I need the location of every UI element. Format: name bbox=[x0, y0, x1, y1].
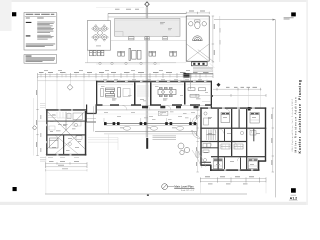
right wing extension lines to grade bbox=[200, 183, 266, 193]
small mark below plan title bbox=[147, 194, 149, 196]
right wing east wall bbox=[265, 107, 266, 161]
wing room microtext bbox=[50, 115, 81, 151]
cabana small table bbox=[195, 20, 200, 22]
left wing inner wall vertical bbox=[63, 135, 64, 154]
wall living/hall bbox=[134, 82, 136, 104]
laundry fixtures bbox=[203, 144, 211, 162]
right wing interior wall h2 bbox=[200, 141, 246, 142]
right wing interior wall h1 bbox=[200, 128, 266, 129]
bed 3 bbox=[250, 113, 259, 124]
dim band extra microtext bbox=[44, 69, 190, 72]
path diagonals SE of cabana bbox=[206, 63, 215, 71]
right wing partition h4 bbox=[200, 147, 217, 148]
border corner arrow bbox=[273, 19, 276, 21]
more door swings right wing bbox=[208, 109, 241, 161]
right wing partition v8 bbox=[240, 157, 241, 169]
right wing stairs bbox=[207, 130, 216, 141]
left wing east wall bbox=[85, 111, 87, 156]
cabana chair right bbox=[202, 22, 206, 26]
scan edge bottom bbox=[0, 202, 308, 205]
notes box 1 column headers bbox=[26, 17, 44, 20]
right wing partition v4 bbox=[224, 129, 225, 142]
door swing arcs south bbox=[122, 105, 201, 110]
court west edge bbox=[190, 73, 192, 89]
patio to terrace edge link bbox=[86, 50, 88, 63]
right wing east dim line bbox=[272, 108, 274, 172]
left wing closet partitions bbox=[57, 112, 70, 118]
court marks bbox=[152, 113, 187, 120]
middle planter structure bbox=[129, 48, 141, 60]
terrace columns bbox=[104, 122, 196, 125]
right wing top wall bbox=[200, 107, 266, 109]
cabana chair left bbox=[189, 22, 193, 26]
living room sofa group bbox=[101, 88, 131, 97]
dining table bbox=[158, 87, 176, 96]
notes box 2 text bbox=[26, 58, 56, 62]
central block top wall bbox=[96, 81, 212, 83]
right wing east jog bbox=[258, 160, 266, 162]
terrace edge below lounges bbox=[85, 62, 176, 64]
section marker diamond bbox=[144, 1, 149, 7]
second left vertical dim bbox=[33, 98, 35, 156]
patio tiny text bbox=[96, 45, 101, 48]
left wing top wall bbox=[46, 109, 86, 111]
north dimension band line 1 bbox=[38, 73, 214, 75]
svg-text:Scale: 1/8" = 1'-0": Scale: 1/8" = 1'-0" bbox=[181, 190, 195, 192]
south wall bay bumps bbox=[142, 106, 199, 108]
left wing lower X bbox=[55, 135, 78, 154]
shrubs on terrace edge bbox=[99, 62, 156, 64]
corner square bottom-right bbox=[291, 188, 296, 193]
leader line bbox=[168, 186, 174, 188]
left wing partition wall bbox=[47, 134, 85, 135]
bed 1 bbox=[213, 159, 222, 169]
terrace column microticks bbox=[104, 118, 190, 122]
wall hall/dining bbox=[150, 82, 152, 104]
scan edge right bbox=[306, 0, 308, 205]
svg-text:Koetter Architecture Plannin: Koetter Architecture Planning bbox=[298, 79, 302, 153]
notes box 1 row1 label bbox=[26, 22, 32, 23]
terrace planters bbox=[123, 126, 183, 130]
dimension band ticks bbox=[38, 73, 214, 78]
extension to grade mid bbox=[107, 135, 109, 194]
entry door arcs west of right wing bbox=[192, 116, 201, 139]
lounge chair pair 2 bbox=[118, 51, 125, 56]
notes box 1 row2 label bbox=[26, 35, 31, 36]
great room scattered marks bbox=[101, 86, 208, 101]
extension of y121 wall to dim bbox=[38, 120, 47, 122]
grid bubble diamond B bbox=[32, 126, 36, 130]
bed 4 bbox=[221, 113, 230, 123]
hall stair lines bbox=[137, 86, 149, 96]
notes box 1 title row bbox=[26, 13, 55, 16]
south patio band lines bbox=[97, 110, 200, 112]
cabana oval table bbox=[195, 22, 200, 29]
cabana inner top wall bbox=[186, 18, 209, 20]
terrace edge upper bbox=[104, 122, 197, 124]
dimension band microtext bbox=[39, 71, 209, 74]
pool step notch bbox=[115, 32, 123, 37]
cabinet line living bbox=[98, 84, 133, 86]
cabana outer box bbox=[186, 16, 209, 61]
cabinet line dining bbox=[153, 84, 184, 86]
terrace edge lower thin bbox=[104, 125, 197, 127]
extra band ticks bbox=[41, 74, 206, 78]
bed 2 bbox=[248, 159, 257, 169]
sheet border vertical line bbox=[274, 20, 276, 198]
left wing roof X bbox=[48, 112, 85, 149]
right wing partition h5 bbox=[200, 162, 211, 163]
sheet number A1.2 bbox=[289, 195, 298, 201]
window sill marks south of left wing bbox=[48, 156, 79, 158]
entry walk curves bbox=[192, 148, 206, 168]
detail bubble bbox=[162, 184, 168, 190]
chimney block bbox=[248, 107, 251, 111]
pool deck south wall bbox=[186, 72, 213, 74]
top wall window gaps bbox=[104, 81, 206, 82]
right wing door arcs bbox=[219, 129, 252, 146]
stairs arrow bbox=[207, 134, 216, 136]
entry steps ticks bbox=[195, 152, 200, 156]
terrace west edge bbox=[93, 106, 95, 131]
right wing interior wall v2 bbox=[231, 109, 232, 156]
patio square bbox=[87, 21, 110, 51]
left wing interior extra marks bbox=[48, 116, 81, 131]
pool bench recess line bbox=[121, 35, 176, 37]
right wing partition v5 bbox=[239, 109, 240, 127]
corner square bottom-left bbox=[13, 187, 17, 191]
deck line south of pool bbox=[111, 40, 187, 42]
pool deck right text bbox=[168, 28, 172, 30]
terrace lower edge bbox=[95, 131, 197, 133]
kitchen fixtures bbox=[188, 88, 206, 97]
left vertical dimension line bbox=[37, 77, 39, 156]
grade line bbox=[45, 193, 247, 195]
closet hatch right wing bbox=[220, 145, 243, 150]
extension ticks down from band bbox=[45, 78, 200, 109]
hallway south lines bbox=[87, 117, 96, 119]
cabana dim extension down bbox=[212, 62, 214, 73]
notes box 2 bbox=[24, 55, 57, 64]
right wing top dim band bbox=[213, 88, 262, 90]
notes box 1 bottom note bbox=[26, 44, 55, 47]
pool top microtext bbox=[115, 8, 139, 11]
north dimension band line 2 bbox=[38, 76, 214, 78]
corner square top-right bbox=[291, 12, 296, 16]
central room microtext bbox=[52, 99, 201, 148]
left wing south wall bbox=[46, 154, 86, 156]
top wall window thin line bbox=[96, 81, 212, 83]
section line dark end segment bbox=[146, 138, 148, 149]
cabana counter bar bbox=[192, 62, 208, 66]
pool bench 3 bbox=[163, 37, 168, 40]
svg-text:A1.2: A1.2 bbox=[290, 196, 298, 200]
court line north of right wing bbox=[202, 101, 211, 103]
bottom dim microtext right wing bbox=[208, 183, 248, 186]
bed pillows bbox=[214, 113, 259, 160]
dark stair block SW of cabana bbox=[183, 73, 189, 78]
left wing bottom dims bbox=[45, 162, 87, 164]
notes box 1 row1 text block bbox=[37, 22, 55, 33]
right wing partition v7 bbox=[224, 157, 225, 169]
powder room outline bbox=[158, 111, 168, 115]
entry court bushes bbox=[178, 143, 190, 155]
corridor marks bbox=[144, 112, 189, 119]
right wing room microtext bbox=[204, 117, 260, 165]
faint line left of section marker bbox=[96, 7, 144, 9]
counter appliances bbox=[193, 63, 204, 65]
cabana shell spa bbox=[193, 36, 203, 41]
notes box 1 row2 text block bbox=[37, 35, 54, 39]
terrace microtext bbox=[120, 127, 176, 130]
corner square top-left bbox=[12, 12, 16, 16]
wing small fixtures bbox=[69, 136, 82, 146]
left wing west wall bbox=[46, 109, 48, 155]
plan title underline bbox=[174, 187, 194, 190]
extension to grade left bbox=[45, 156, 47, 194]
grid bubble diamond A bbox=[67, 84, 73, 90]
notes box 2 title bbox=[26, 55, 32, 58]
lounge chair pair 1 bbox=[90, 51, 104, 56]
microtext above central wall bbox=[103, 78, 202, 81]
right wing SW jog bbox=[210, 165, 212, 171]
central block west wall bbox=[96, 81, 97, 105]
hallway west wall bbox=[86, 105, 87, 114]
cabana roof X bbox=[187, 44, 214, 62]
patio round tables quincunx bbox=[93, 26, 107, 40]
dim tick dark bbox=[211, 95, 213, 97]
ticks above central wall bbox=[101, 79, 207, 81]
bed inner lines bbox=[213, 120, 259, 166]
scan edge top-left corner bbox=[0, 0, 12, 31]
scan edge top bbox=[0, 0, 308, 2]
terrace east edge bbox=[196, 123, 198, 131]
left wing third dim row bbox=[45, 169, 87, 171]
left wing south patio lines bbox=[88, 138, 118, 151]
pool top wall bbox=[108, 12, 186, 14]
right wing bottom dims bbox=[200, 178, 266, 180]
cabana top dimension bbox=[186, 12, 209, 14]
pool deck tiny text bbox=[160, 22, 165, 24]
terrace steps bbox=[153, 136, 177, 139]
lounge chair pair 3 bbox=[149, 51, 156, 56]
cabana steps bbox=[193, 67, 213, 71]
patio table chairs bbox=[92, 25, 108, 41]
left wing interior wall y121 bbox=[47, 121, 86, 122]
south patio microtext bbox=[104, 112, 195, 117]
left wing text marks bbox=[50, 121, 72, 139]
left dimension row bbox=[38, 80, 97, 82]
closet rects bbox=[221, 144, 243, 149]
deck table glyph 1 bbox=[129, 37, 135, 40]
cabinet line kitchen bbox=[187, 84, 211, 86]
notes box 1 title rule bbox=[25, 15, 56, 18]
caption under top-right square bbox=[284, 17, 294, 19]
south wall thin line bbox=[96, 104, 212, 106]
section line (double) bbox=[145, 7, 147, 137]
pool water outline bbox=[115, 18, 180, 36]
deck edge to cabana link bbox=[176, 62, 186, 64]
bath fixtures left wing bbox=[67, 113, 83, 127]
central block south wall segments bbox=[96, 104, 212, 106]
central block east wall bbox=[211, 81, 212, 108]
right wing interior wall h3 bbox=[211, 156, 266, 157]
cabana right dim microtext bbox=[219, 28, 222, 45]
cabana right dimension line bbox=[212, 16, 214, 62]
sheet border horizontal line bbox=[214, 19, 275, 21]
right wing partition v6 bbox=[253, 129, 254, 142]
west side rotated microtext bbox=[40, 115, 43, 152]
pool deck west edge bbox=[107, 13, 109, 20]
bath fixtures right wing bbox=[204, 112, 257, 135]
right wing south wall bbox=[211, 169, 260, 171]
right wing west wall bbox=[200, 107, 201, 165]
right wing interior wall v1 bbox=[218, 109, 219, 169]
right wing interior wall v3 bbox=[246, 109, 247, 169]
svg-text:2346 Maplewood Drive, Vail, Co: 2346 Maplewood Drive, Vail, Colorado 816… bbox=[291, 99, 294, 152]
left wing SW steps bbox=[40, 158, 46, 162]
NW porch marks bbox=[40, 104, 45, 108]
lounge chair pair 4 bbox=[170, 51, 177, 56]
wall dining/kitchen bbox=[184, 82, 186, 104]
master bed bbox=[50, 138, 59, 148]
south band wall line bbox=[97, 109, 200, 111]
wing-center link walls bbox=[86, 113, 97, 114]
pool bench 2 bbox=[145, 37, 150, 40]
grid bubble diamond C bbox=[217, 83, 221, 87]
svg-text:Main Level Plan: Main Level Plan bbox=[174, 185, 194, 189]
notes box 1 bbox=[24, 13, 57, 51]
right wing west dim line bbox=[197, 110, 199, 172]
vestibule walls bbox=[87, 113, 97, 122]
